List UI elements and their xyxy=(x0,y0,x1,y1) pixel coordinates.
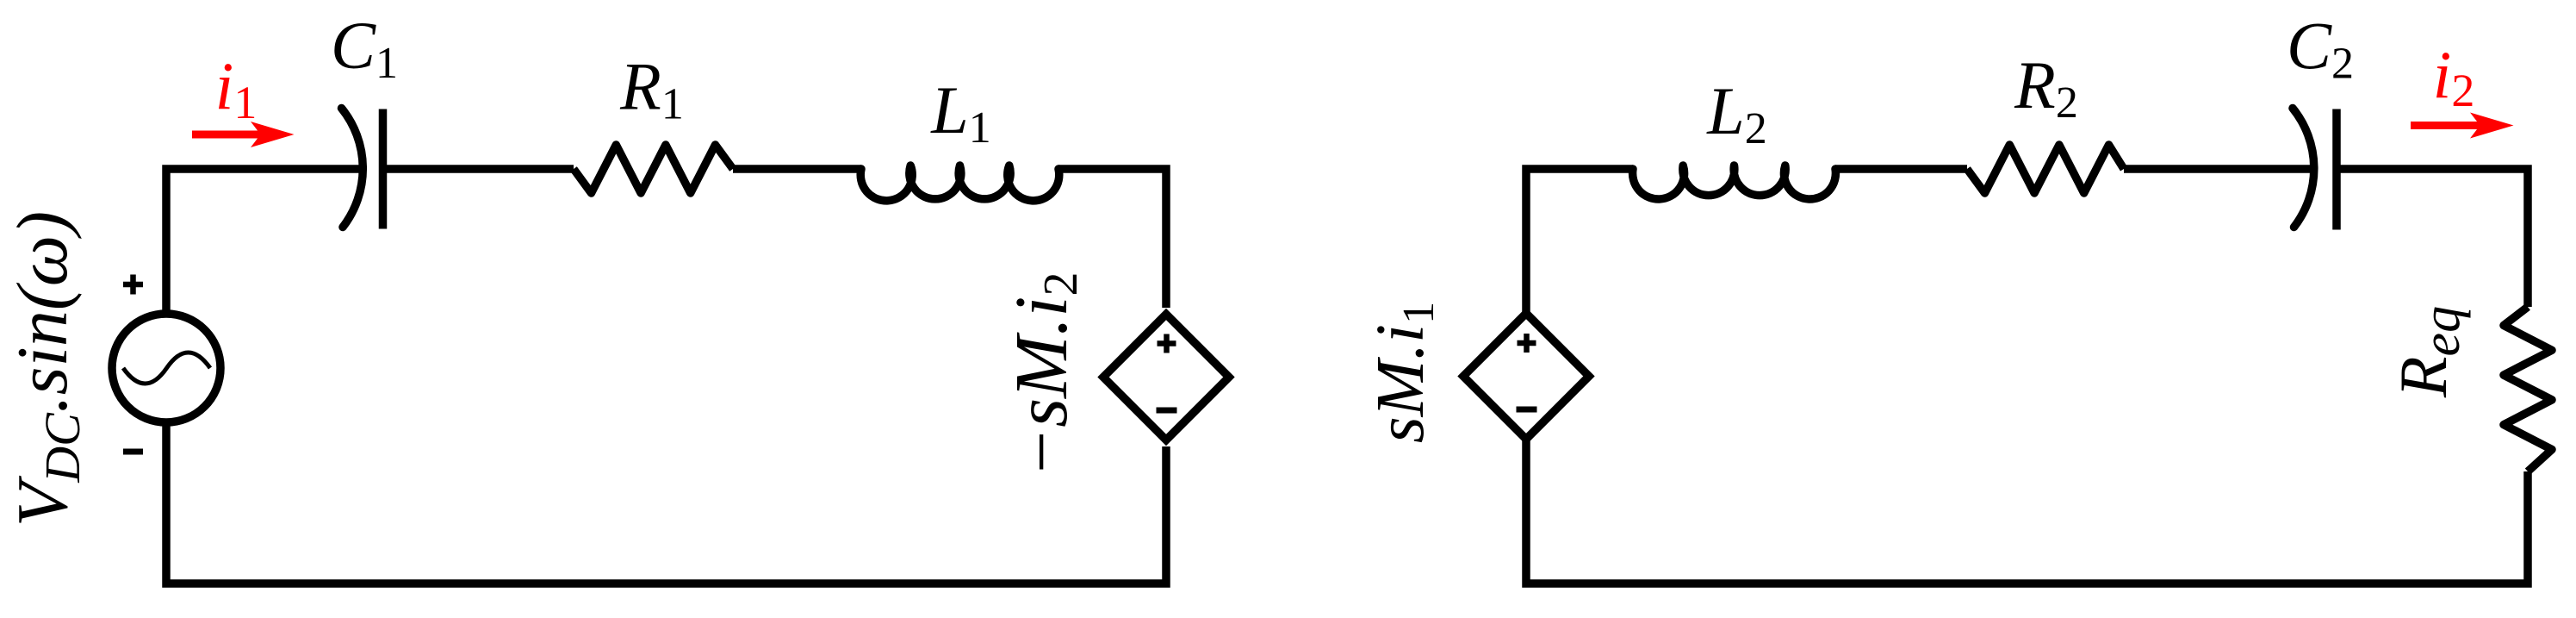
wire: L2 to R2 xyxy=(1835,165,1967,173)
inductor L1 xyxy=(860,165,1059,201)
plus sign of D2 xyxy=(1518,334,1536,353)
wire: C1 right plate to R1 xyxy=(383,165,574,173)
current arrow i1 xyxy=(192,122,295,147)
wire: loop2 bottom U (from D2 bottom, along bottom, up to Req bottom) xyxy=(1526,440,2528,584)
capacitor C1 straight plate xyxy=(379,109,388,229)
plus sign of D1 xyxy=(1158,334,1176,353)
wire: loop1 bottom U (from source bottom, along bottom, up to diamond D1 bottom) xyxy=(166,426,1166,584)
resistor R1 xyxy=(574,145,733,193)
wire: R2 to C2 xyxy=(2124,165,2313,173)
capacitor C2 curved plate xyxy=(2293,109,2314,228)
capacitor C2 straight plate xyxy=(2332,109,2341,230)
plus sign of VS xyxy=(123,275,143,295)
capacitor C1 curved plate xyxy=(342,109,363,228)
minus sign of D2 xyxy=(1517,407,1537,413)
dependent source D2 diamond xyxy=(1463,314,1589,440)
resistor Req (vertical) xyxy=(2504,307,2552,471)
inductor L2 xyxy=(1633,165,1836,199)
dependent source D1 diamond xyxy=(1103,315,1229,440)
svg-text:−sM.i2: −sM.i2 xyxy=(999,272,1088,478)
wire: loop2 top-left corner down to diamond D2 top xyxy=(1526,169,1633,314)
wire: C2 plate to top-right corner down to Req xyxy=(2337,169,2528,307)
minus sign of D1 xyxy=(1157,408,1177,414)
minus sign of VS xyxy=(123,449,143,455)
wire: R1 to L1 xyxy=(733,165,861,173)
voltage source VS circle xyxy=(112,314,220,422)
wire: loop1 top-left (source top, corner, to capacitor C1) xyxy=(166,169,361,310)
resistor R2 xyxy=(1967,145,2124,193)
sine wave inside source xyxy=(123,353,210,384)
current arrow i2 xyxy=(2411,113,2514,139)
wire: L1 to top-right corner, down to diamond D1 top xyxy=(1058,169,1166,308)
